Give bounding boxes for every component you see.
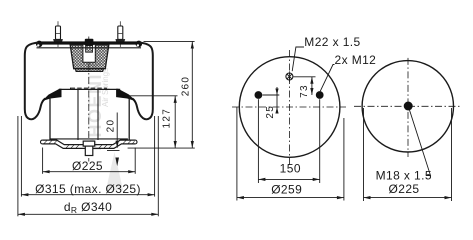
svg-text:150: 150: [280, 162, 301, 176]
svg-text:Ø225: Ø225: [72, 159, 103, 173]
svg-text:dR Ø340: dR Ø340: [64, 200, 112, 215]
svg-text:Air Springs: Air Springs: [101, 68, 110, 107]
svg-text:Ø259: Ø259: [271, 183, 302, 197]
svg-text:127: 127: [161, 108, 172, 129]
svg-text:260: 260: [180, 76, 191, 97]
svg-text:73: 73: [299, 84, 310, 98]
svg-text:25: 25: [265, 105, 276, 119]
svg-text:20: 20: [106, 119, 117, 133]
svg-text:M18 x 1.5: M18 x 1.5: [376, 169, 432, 183]
svg-text:M22 x 1.5: M22 x 1.5: [304, 35, 360, 49]
svg-text:Ø315 (max. Ø325): Ø315 (max. Ø325): [35, 182, 141, 196]
svg-text:2x M12: 2x M12: [335, 53, 377, 67]
svg-text:Ø225: Ø225: [389, 182, 420, 196]
